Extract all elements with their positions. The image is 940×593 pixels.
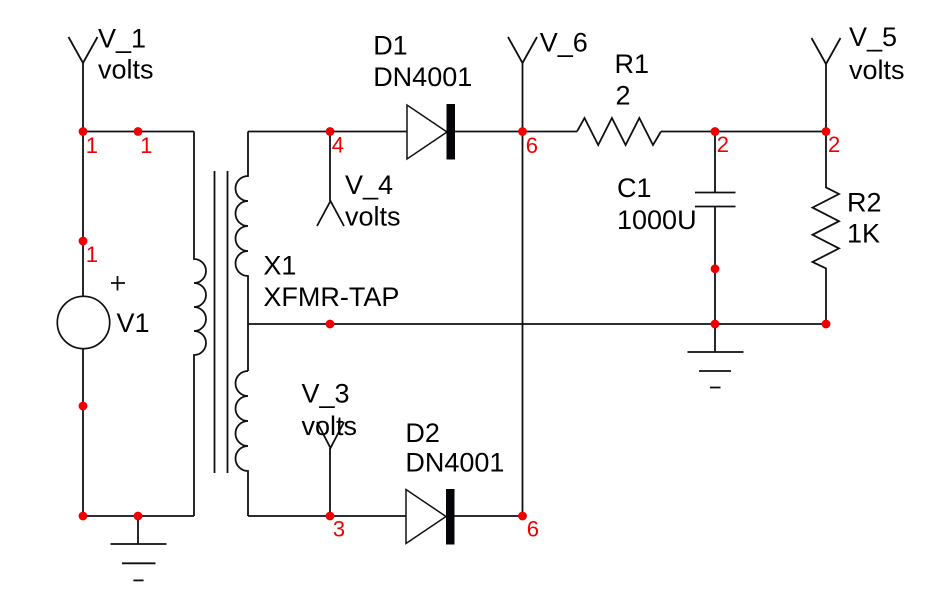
svg-text:2: 2 (717, 132, 729, 157)
resistor R1 (577, 118, 661, 145)
wire top-left horizontal (83, 131, 194, 133)
junction dot node 4 (326, 127, 335, 136)
probe V_4 (317, 132, 344, 227)
svg-text:DN4001: DN4001 (405, 447, 504, 477)
svg-text:volts: volts (849, 55, 905, 85)
svg-text:1K: 1K (847, 219, 880, 249)
svg-text:6: 6 (526, 133, 538, 158)
svg-text:V_6: V_6 (540, 28, 588, 58)
junction dot center tap (326, 320, 335, 329)
wire bottom-left horizontal (83, 515, 194, 517)
wire D1 cathode to R1 (455, 131, 577, 133)
svg-text:R1: R1 (615, 49, 650, 79)
svg-text:D2: D2 (405, 418, 440, 448)
svg-text:volts: volts (302, 411, 358, 441)
svg-text:1: 1 (86, 133, 98, 158)
wire R1 to node 2 (661, 131, 826, 133)
junction dot node 3 (326, 512, 335, 521)
transformer core line right (227, 171, 229, 473)
wire node 6 vertical (522, 132, 524, 517)
diode D1 (407, 104, 455, 160)
junction dot R2 bottom (822, 320, 831, 329)
junction dot V1 bottom (79, 402, 88, 411)
svg-text:V_5: V_5 (849, 22, 897, 52)
probe V_3 (317, 422, 344, 516)
wire center tap horizontal (248, 323, 826, 325)
voltage source V1 (57, 276, 125, 349)
junction dot node 2 left (711, 127, 720, 136)
resistor R2 (813, 132, 840, 325)
junction dot node 2 right (822, 127, 831, 136)
svg-text:4: 4 (332, 133, 344, 158)
svg-text:R2: R2 (847, 188, 882, 218)
svg-text:3: 3 (333, 517, 345, 542)
junction dot C1 bottom (711, 264, 720, 273)
wire below V1 (82, 349, 84, 516)
svg-text:D1: D1 (373, 31, 408, 61)
junction dot node 1 mid (134, 127, 143, 136)
svg-text:V_4: V_4 (345, 170, 393, 200)
probe V_1 (69, 37, 98, 132)
svg-text:DN4001: DN4001 (373, 62, 472, 92)
svg-text:V_1: V_1 (98, 24, 146, 54)
svg-text:6: 6 (527, 517, 539, 542)
svg-text:C1: C1 (617, 173, 652, 203)
probe V_5 (812, 38, 841, 132)
ground right (688, 324, 744, 388)
transformer core line left (214, 171, 216, 473)
wire D2 cathode to node 6 (455, 515, 523, 517)
svg-text:2: 2 (616, 81, 631, 111)
wire secondary top to diode D1 (248, 131, 407, 133)
transformer X1 secondary lower winding (236, 371, 249, 516)
ground under V1 (111, 516, 167, 580)
probe V_6 (508, 37, 537, 132)
svg-text:1: 1 (86, 242, 98, 267)
svg-text:2: 2 (828, 132, 840, 157)
junction dot node 1 left (79, 127, 88, 136)
transformer X1 secondary upper winding (236, 132, 249, 372)
wire left branch down (82, 132, 84, 298)
wire secondary bottom to diode D2 (248, 515, 406, 517)
junction dot bottom-left corner (79, 512, 88, 521)
svg-text:1: 1 (140, 133, 152, 158)
diode D2 (406, 489, 455, 545)
junction dot ground right (711, 320, 720, 329)
svg-text:V1: V1 (117, 308, 150, 338)
junction dot ground tap left (134, 512, 143, 521)
junction dot node 6 top (518, 127, 527, 136)
svg-text:XFMR-TAP: XFMR-TAP (263, 282, 399, 312)
junction dot node 6 bottom (518, 512, 527, 521)
capacitor C1 (695, 132, 736, 325)
svg-text:volts: volts (345, 202, 401, 232)
junction dot node 1 lower (79, 237, 88, 246)
transformer X1 primary winding (194, 132, 206, 517)
svg-text:volts: volts (98, 55, 154, 85)
svg-text:V_3: V_3 (302, 379, 350, 409)
svg-text:X1: X1 (263, 251, 296, 281)
svg-text:1000U: 1000U (617, 205, 697, 235)
